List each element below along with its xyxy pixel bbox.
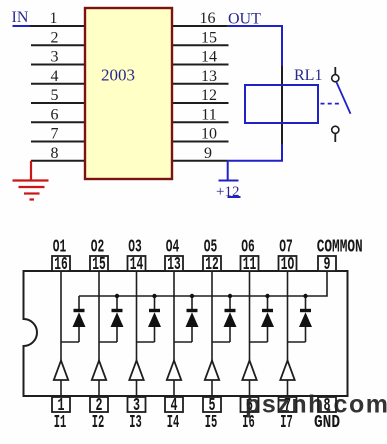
svg-text:IN: IN (12, 9, 29, 26)
svg-text:2: 2 (51, 29, 59, 46)
svg-text:12: 12 (205, 255, 219, 275)
svg-text:COMMON: COMMON (317, 238, 363, 258)
svg-text:1: 1 (50, 10, 58, 27)
svg-text:I3: I3 (129, 413, 142, 433)
svg-text:8: 8 (51, 145, 59, 162)
svg-text:13: 13 (167, 255, 181, 275)
svg-text:6: 6 (51, 106, 59, 123)
svg-text:I4: I4 (167, 413, 180, 433)
svg-text:1O: 1O (281, 255, 295, 275)
svg-text:14: 14 (130, 255, 144, 275)
svg-text:9: 9 (324, 255, 331, 275)
svg-text:9: 9 (204, 145, 212, 162)
svg-text:O3: O3 (128, 238, 142, 258)
svg-text:15: 15 (92, 255, 106, 275)
svg-text:I2: I2 (92, 413, 105, 433)
svg-text:14: 14 (201, 49, 217, 66)
svg-text:15: 15 (201, 29, 217, 46)
svg-text:16: 16 (200, 10, 216, 27)
svg-text:11: 11 (243, 255, 257, 275)
svg-text:10: 10 (201, 126, 217, 143)
svg-text:O2: O2 (91, 238, 105, 258)
svg-text:RL1: RL1 (294, 67, 322, 84)
svg-text:11: 11 (201, 106, 216, 123)
svg-text:O5: O5 (204, 238, 218, 258)
svg-text:O1: O1 (53, 238, 67, 258)
svg-text:O4: O4 (166, 238, 180, 258)
svg-text:I5: I5 (205, 413, 218, 433)
svg-text:5: 5 (51, 87, 59, 104)
svg-text:O6: O6 (241, 238, 255, 258)
svg-text:2003: 2003 (101, 66, 135, 85)
svg-text:I1: I1 (54, 413, 67, 433)
svg-text:7: 7 (51, 126, 59, 143)
svg-text:4: 4 (51, 68, 59, 85)
svg-text:O7: O7 (279, 238, 293, 258)
svg-text:16: 16 (54, 255, 68, 275)
svg-text:psznh.com: psznh.com (245, 391, 387, 419)
svg-text:+12: +12 (216, 184, 239, 200)
svg-text:3: 3 (51, 49, 59, 66)
svg-text:OUT: OUT (228, 11, 261, 28)
svg-text:12: 12 (201, 87, 217, 104)
svg-text:13: 13 (201, 68, 217, 85)
